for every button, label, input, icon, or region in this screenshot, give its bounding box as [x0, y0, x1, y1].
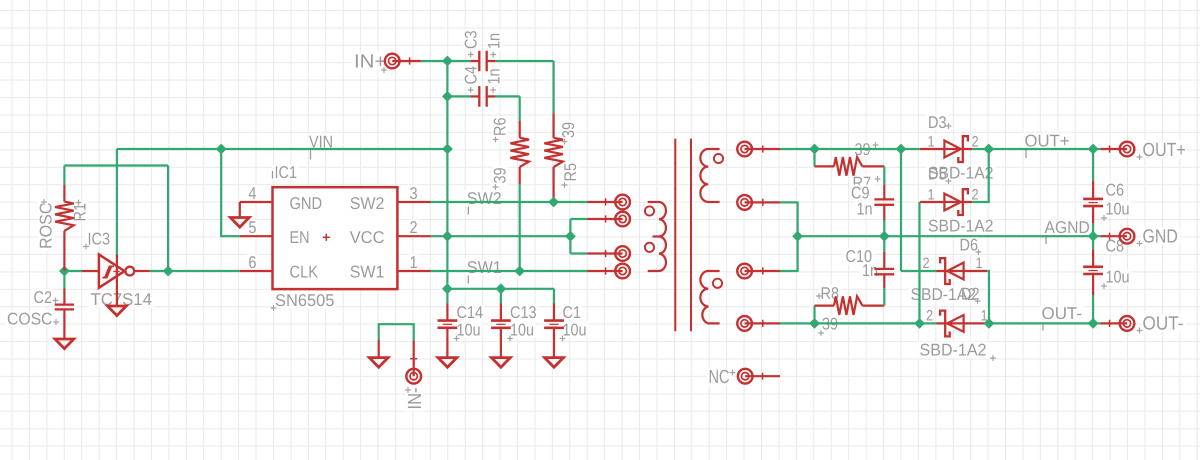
pin name CLK	[288, 264, 321, 281]
ground below C13	[492, 358, 511, 368]
svg-text:2: 2	[410, 218, 418, 237]
pin 1 SW1 stub	[397, 270, 430, 272]
label C3 value 1n	[484, 31, 503, 51]
label TC7S14	[89, 291, 154, 308]
label C6	[1104, 182, 1127, 199]
svg-text:1: 1	[975, 255, 982, 272]
pin 2 of D2	[924, 308, 935, 323]
svg-text:GND: GND	[290, 194, 323, 213]
pin 1 of D6	[973, 256, 984, 271]
pad OUT+	[1120, 142, 1135, 157]
svg-text:10u: 10u	[563, 320, 587, 339]
wire C4 row left	[447, 95, 470, 97]
transformer primary dot 2	[645, 243, 654, 252]
wire pad2 link	[570, 218, 587, 220]
svg-text:1: 1	[927, 186, 934, 203]
pin number 2	[408, 219, 420, 236]
pad GND	[1120, 229, 1135, 244]
svg-text:IC3: IC3	[88, 229, 111, 248]
label C13	[508, 304, 539, 321]
svg-text:C4: C4	[462, 66, 481, 85]
label COSC	[5, 311, 54, 328]
label C1	[561, 304, 584, 321]
label C3	[462, 29, 481, 52]
label D5 SBD-1A2	[926, 218, 996, 235]
wire winding-D net	[780, 322, 937, 324]
label C4	[462, 64, 481, 87]
transformer T1 primary pads	[615, 195, 630, 210]
capacitor C3	[470, 60, 479, 62]
pin 2 VCC stub	[397, 235, 430, 237]
wire OUT+ net	[972, 148, 1093, 150]
transformer secondary pads	[737, 142, 752, 157]
svg-text:39: 39	[559, 122, 578, 138]
wire pad B to AGND	[780, 202, 798, 236]
pin 2 of D6	[920, 256, 931, 271]
svg-text:GND: GND	[1143, 226, 1178, 247]
transformer secondary dot 2	[713, 279, 722, 288]
svg-text:10u: 10u	[457, 320, 481, 339]
capacitor C1	[553, 289, 555, 304]
node inverter input junction	[59, 266, 70, 277]
label IN-	[405, 386, 426, 412]
label R7	[851, 175, 874, 192]
wire EN to VIN	[221, 149, 240, 236]
svg-text:4: 4	[248, 184, 256, 203]
wire D6 D2 anodes to OUT-	[987, 271, 989, 323]
svg-text:SN6505: SN6505	[275, 291, 334, 310]
label IC1	[273, 164, 300, 181]
svg-text:SBD-1A2: SBD-1A2	[920, 341, 987, 360]
label C8	[1104, 238, 1127, 255]
ground below C2	[55, 339, 74, 349]
transformer primary dot 1	[645, 206, 654, 215]
transformer primary winding	[648, 202, 666, 271]
transformer core	[675, 139, 691, 332]
label GND pad	[1141, 227, 1180, 245]
label R8	[819, 285, 842, 302]
capacitor C13	[500, 289, 502, 304]
wire SW1 net	[431, 270, 588, 272]
pin 1 of D3	[925, 134, 936, 149]
svg-text:CLK: CLK	[290, 263, 319, 282]
ground below C1	[545, 358, 564, 368]
diode D5	[920, 189, 972, 215]
wire VCC net	[431, 235, 571, 237]
label D6	[958, 237, 981, 254]
label C2	[32, 289, 55, 306]
label C8 value 10u	[1104, 269, 1132, 286]
wire IC3 output to R1 link vertical	[167, 166, 169, 272]
svg-text:IC1: IC1	[275, 163, 298, 182]
wire AGND net	[798, 235, 1094, 237]
svg-text:OUT+: OUT+	[1025, 132, 1070, 151]
wire transformer pad2-pad3 vertical	[569, 219, 571, 254]
svg-text:10u: 10u	[1106, 200, 1130, 219]
pin 1 of D2	[978, 308, 989, 323]
label R6	[491, 116, 510, 139]
svg-text:5: 5	[248, 218, 256, 237]
label C14	[455, 304, 486, 321]
wire SW2 net	[431, 201, 588, 203]
diode D6	[937, 258, 988, 284]
transformer secondary pad stubs	[745, 148, 780, 150]
ground below C14	[438, 358, 457, 368]
label SN6505	[273, 292, 336, 309]
capacitor C4	[470, 95, 479, 97]
inverter IC3 power pin line	[116, 255, 118, 306]
ground near IN-	[378, 340, 380, 358]
capacitor C10	[883, 288, 885, 306]
capacitor C2	[63, 271, 65, 289]
wire VIN to IC3 VCC vertical	[116, 149, 118, 255]
svg-text:1: 1	[927, 133, 934, 150]
svg-text:D6: D6	[960, 236, 979, 255]
svg-text:C6: C6	[1106, 181, 1125, 200]
svg-text:SW1: SW1	[467, 258, 502, 277]
wire C3 to R5 top	[496, 60, 554, 62]
svg-text:SW1: SW1	[350, 263, 385, 282]
wire IC3 output net to CLK	[150, 270, 240, 272]
label D2 SBD-1A2	[918, 342, 989, 359]
svg-text:IN+: IN+	[354, 52, 386, 73]
wire cap top rail	[447, 288, 554, 290]
capacitor C9	[883, 166, 885, 184]
svg-text:AGND: AGND	[1045, 218, 1090, 237]
resistor R1	[63, 185, 65, 202]
svg-text:10u: 10u	[510, 320, 534, 339]
diode D2	[937, 311, 988, 337]
pin name GND	[288, 195, 325, 212]
wire R1 top segment	[63, 166, 65, 186]
label ROSC	[36, 201, 55, 252]
svg-text:2: 2	[926, 307, 933, 324]
capacitor C6	[1092, 149, 1094, 181]
pin 4 GND stub	[240, 201, 273, 203]
label OUT+ net	[1023, 133, 1072, 150]
transformer secondary winding top	[700, 149, 719, 202]
inverter IC3 output bubble	[125, 267, 134, 276]
pin 2 of D5	[969, 187, 980, 202]
pad IN-	[413, 341, 415, 377]
wire C4 to R6 top	[496, 95, 520, 97]
pin name SW1	[348, 264, 387, 281]
wire OUT- net	[989, 322, 1093, 324]
label OUT- net	[1040, 305, 1085, 322]
pad NC	[738, 369, 753, 384]
svg-text:1n: 1n	[857, 200, 873, 219]
wire pad3 link	[570, 252, 587, 254]
pin 1 of D5	[925, 187, 936, 202]
label VIN net	[307, 134, 335, 151]
svg-text:D3: D3	[928, 113, 947, 132]
wire D6 cathode feed vertical	[900, 149, 902, 271]
pin 5 EN stub	[240, 235, 273, 237]
wire D5 anode feed vertical	[918, 202, 920, 323]
label D6 SBD-1A2	[909, 286, 979, 303]
wire AGND stub to pad	[1088, 231, 1099, 242]
label IC3	[86, 230, 113, 247]
label OUT- pad	[1141, 314, 1186, 332]
svg-text:OUT-: OUT-	[1143, 313, 1184, 334]
label R5	[561, 161, 580, 184]
label C10 value 1n	[860, 262, 880, 279]
svg-text:1n: 1n	[862, 261, 878, 280]
label R8 value 39	[820, 316, 840, 333]
svg-text:2: 2	[971, 186, 978, 203]
label NC	[707, 367, 732, 385]
wire R1-top link horizontal	[64, 164, 168, 166]
label R7 value 39	[853, 141, 873, 158]
label R5 value 39	[559, 120, 578, 140]
pad OUT-	[1120, 316, 1135, 331]
label D3 SBD-1A2	[926, 165, 996, 182]
svg-text:SW2: SW2	[350, 194, 385, 213]
wire IN- bridge	[379, 324, 414, 340]
pin number 3	[408, 185, 420, 202]
pin name EN	[288, 229, 312, 246]
label C4 value 1n	[484, 66, 503, 86]
label OUT+ pad	[1141, 140, 1188, 158]
transformer secondary dot 1	[714, 154, 723, 163]
capacitor C14	[446, 289, 448, 304]
resistor R7	[813, 149, 815, 166]
wire winding-A net	[780, 148, 920, 150]
resistor R5	[552, 61, 554, 114]
svg-text:1: 1	[410, 253, 418, 272]
label C9	[849, 185, 872, 202]
wire IC3 input pin	[82, 270, 99, 272]
pin 6 CLK stub	[240, 270, 273, 272]
svg-text:OUT+: OUT+	[1143, 140, 1186, 161]
wire IN+ vertical trunk	[446, 61, 448, 289]
label C1 value 10u	[561, 321, 589, 338]
svg-text:1n: 1n	[484, 33, 503, 49]
pin number 6	[246, 254, 258, 271]
svg-text:SBD-1A2: SBD-1A2	[928, 217, 994, 236]
svg-text:SW2: SW2	[467, 189, 502, 208]
ground at IC1 pin 4	[239, 202, 241, 218]
pin 3 SW2 stub	[397, 201, 430, 203]
label IN+	[352, 52, 388, 70]
label D3	[926, 114, 949, 130]
svg-text:C2: C2	[34, 288, 53, 307]
svg-text:NC: NC	[709, 367, 730, 388]
pad IN+	[385, 54, 400, 69]
op-amp U1: IC1 SN6505 body	[273, 187, 398, 289]
pin 2 of D3	[969, 134, 980, 149]
IC1 origin cross	[323, 234, 330, 241]
pin number 5	[246, 219, 258, 236]
transformer secondary winding bottom	[700, 271, 719, 323]
svg-text:VCC: VCC	[350, 228, 385, 247]
svg-text:39: 39	[491, 167, 510, 183]
svg-text:COSC: COSC	[7, 310, 52, 329]
capacitor C8	[1092, 236, 1094, 250]
pin name SW2	[348, 195, 387, 212]
svg-text:R5: R5	[561, 163, 580, 182]
svg-text:OUT-: OUT-	[1042, 304, 1083, 323]
svg-text:2: 2	[971, 133, 978, 150]
label R1	[71, 201, 90, 224]
svg-text:3: 3	[410, 184, 418, 203]
svg-text:D5: D5	[928, 165, 947, 184]
pin number 1	[408, 254, 420, 271]
svg-text:ROSC: ROSC	[36, 203, 55, 250]
label SW1 net	[465, 259, 504, 276]
ground IC3 GND pin	[108, 306, 127, 316]
svg-text:R6: R6	[491, 118, 510, 137]
svg-text:C3: C3	[462, 31, 481, 50]
svg-text:6: 6	[248, 253, 256, 272]
transformer primary pad stubs	[588, 201, 623, 203]
label C9 value 1n	[855, 201, 875, 218]
svg-text:10u: 10u	[1106, 268, 1130, 287]
resistor R8	[813, 306, 815, 324]
label AGND net	[1043, 219, 1092, 236]
wire IN+ row	[421, 60, 471, 62]
label C6 value 10u	[1104, 201, 1132, 218]
svg-text:EN: EN	[290, 228, 310, 247]
label C14 value 10u	[455, 321, 483, 338]
op-amp U: inverter IC3 TC7S14 triangle	[99, 254, 125, 287]
wire D3 D5 cathodes to OUT+	[972, 149, 989, 202]
wire VIN net horizontal	[117, 148, 448, 150]
label C13 value 10u	[508, 321, 536, 338]
label R6 value 39	[491, 165, 510, 185]
pin name VCC	[348, 229, 387, 246]
pin number 4	[246, 185, 258, 202]
resistor R6	[519, 96, 521, 121]
label C10	[844, 248, 875, 265]
wire pad C to AGND	[780, 236, 798, 271]
label SW2 net	[465, 190, 504, 207]
svg-text:2: 2	[922, 255, 929, 272]
diode D3	[920, 136, 972, 162]
